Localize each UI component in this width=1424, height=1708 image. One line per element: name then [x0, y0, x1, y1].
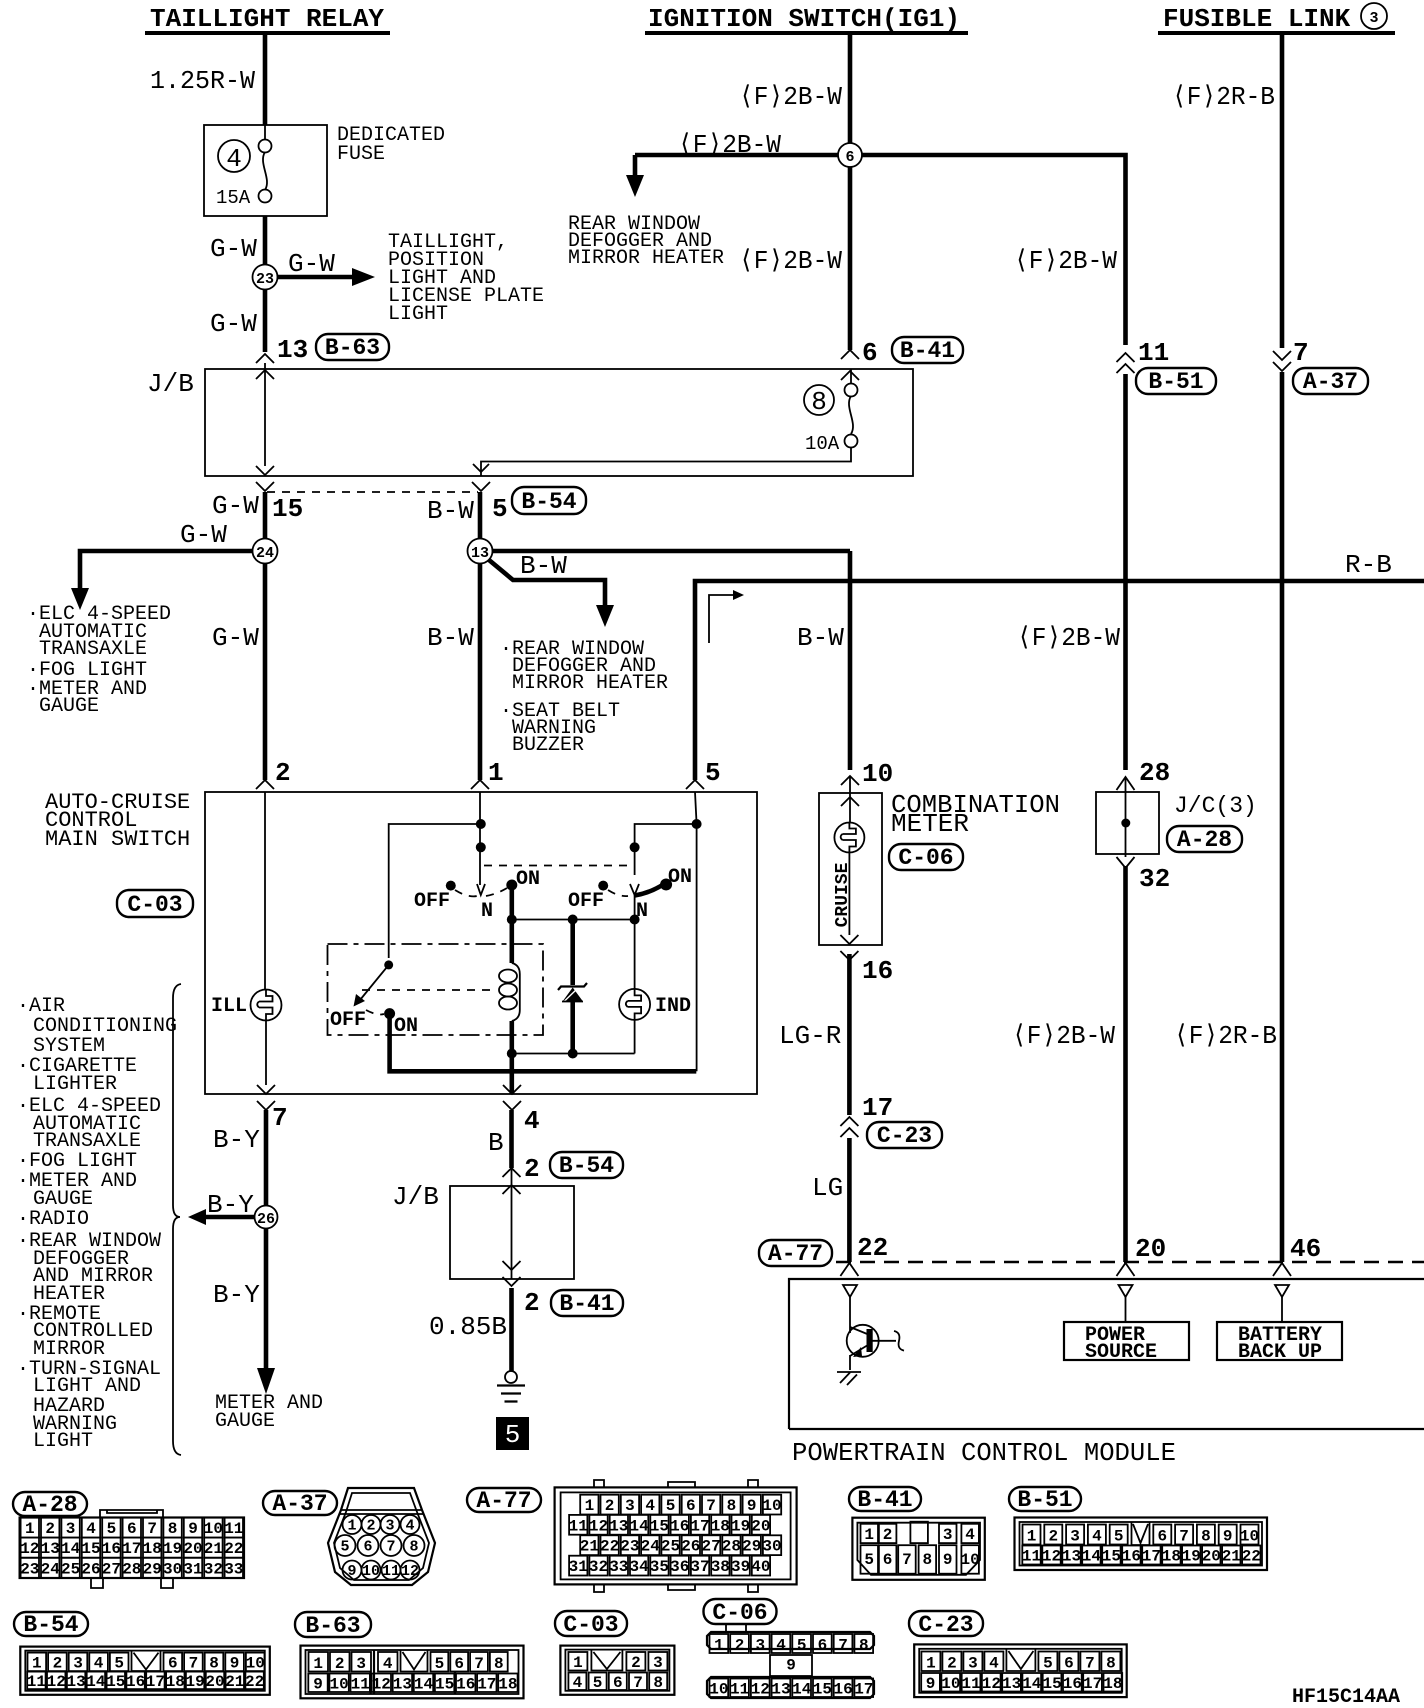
svg-text:12: 12 — [372, 1676, 391, 1694]
svg-text:6: 6 — [1157, 1528, 1167, 1546]
svg-text:A-37: A-37 — [1303, 369, 1358, 395]
svg-text:18: 18 — [1162, 1548, 1181, 1566]
svg-text:8: 8 — [859, 1637, 869, 1655]
svg-text:⟨F⟩2R-B: ⟨F⟩2R-B — [1172, 82, 1275, 112]
svg-text:4: 4 — [776, 1637, 786, 1655]
svg-text:13: 13 — [1062, 1548, 1081, 1566]
svg-text:SOURCE: SOURCE — [1085, 1341, 1157, 1364]
svg-text:B-63: B-63 — [305, 1613, 360, 1639]
lamp ILL — [251, 990, 282, 1021]
svg-text:LIGHT: LIGHT — [33, 1430, 93, 1453]
svg-text:G-W: G-W — [212, 491, 259, 521]
svg-text:13: 13 — [277, 335, 308, 365]
svg-text:14: 14 — [629, 1517, 649, 1535]
svg-text:5: 5 — [114, 1655, 124, 1673]
svg-text:4: 4 — [405, 1518, 414, 1535]
svg-text:6: 6 — [818, 1637, 828, 1655]
svg-text:3: 3 — [943, 1526, 953, 1544]
svg-text:27: 27 — [701, 1538, 720, 1556]
svg-text:2: 2 — [947, 1655, 957, 1673]
right switch branch from pin5 — [692, 819, 702, 829]
svg-text:23: 23 — [256, 271, 274, 288]
svg-text:8: 8 — [811, 387, 827, 417]
svg-text:15: 15 — [106, 1673, 125, 1691]
svg-text:20: 20 — [1135, 1234, 1166, 1264]
svg-text:36: 36 — [670, 1558, 689, 1576]
svg-text:2: 2 — [605, 1497, 615, 1515]
wire 1.25R-W from taillight relay — [150, 34, 544, 379]
svg-text:11: 11 — [569, 1517, 588, 1535]
svg-text:39: 39 — [731, 1558, 750, 1576]
brace — [173, 984, 181, 1455]
svg-text:38: 38 — [711, 1558, 730, 1576]
svg-text:⟨F⟩2B-W: ⟨F⟩2B-W — [1012, 1021, 1115, 1051]
svg-text:7: 7 — [1179, 1528, 1189, 1546]
wire B-W below node 13 to switch pin 1 — [478, 564, 483, 781]
svg-text:R-B: R-B — [1345, 550, 1392, 580]
svg-text:G-W: G-W — [210, 234, 257, 264]
fuse 10A element in J/B — [845, 384, 858, 397]
svg-text:28: 28 — [1139, 758, 1170, 788]
svg-text:6: 6 — [686, 1497, 696, 1515]
node 6 — [838, 143, 862, 167]
svg-text:13: 13 — [41, 1540, 60, 1558]
svg-text:LIGHTER: LIGHTER — [33, 1073, 117, 1096]
svg-text:GAUGE: GAUGE — [215, 1410, 275, 1433]
svg-text:1: 1 — [926, 1655, 936, 1673]
svg-text:7: 7 — [272, 1103, 288, 1133]
svg-text:⟨F⟩2B-W: ⟨F⟩2B-W — [1014, 246, 1117, 276]
relay coil — [509, 920, 514, 964]
wire below node 6 — [848, 167, 853, 350]
svg-text:17: 17 — [690, 1517, 709, 1535]
svg-text:6: 6 — [454, 1655, 464, 1673]
svg-text:6: 6 — [363, 1539, 372, 1556]
svg-text:32: 32 — [589, 1558, 608, 1576]
svg-text:5: 5 — [864, 1551, 874, 1569]
left main switch OFF-N-ON — [477, 884, 485, 895]
svg-text:6: 6 — [127, 1520, 137, 1538]
svg-text:3: 3 — [1070, 1528, 1080, 1546]
wire inside J/B left — [264, 363, 266, 466]
fusible link branch — [1172, 34, 1368, 1262]
svg-text:11: 11 — [224, 1520, 243, 1538]
svg-text:11: 11 — [1022, 1548, 1041, 1566]
svg-text:5: 5 — [666, 1497, 676, 1515]
svg-text:3: 3 — [385, 1518, 394, 1535]
combination meter C-06 — [759, 759, 1060, 1276]
svg-text:22: 22 — [857, 1233, 888, 1263]
svg-text:15: 15 — [813, 1681, 832, 1699]
pin 5 entry — [686, 780, 704, 789]
svg-text:1: 1 — [714, 1637, 724, 1655]
svg-text:⟨F⟩2B-W: ⟨F⟩2B-W — [1017, 623, 1120, 653]
svg-text:B-Y: B-Y — [213, 1125, 260, 1155]
svg-text:C-06: C-06 — [898, 845, 953, 871]
svg-text:16: 16 — [1122, 1548, 1141, 1566]
svg-text:MAIN SWITCH: MAIN SWITCH — [45, 827, 190, 852]
svg-text:7: 7 — [189, 1655, 199, 1673]
svg-text:9: 9 — [188, 1520, 198, 1538]
header IGNITION SWITCH(IG1) — [645, 4, 968, 34]
svg-text:1: 1 — [488, 758, 504, 788]
svg-text:19: 19 — [163, 1540, 182, 1558]
svg-text:15: 15 — [81, 1540, 100, 1558]
pin 2 entry — [256, 780, 274, 789]
svg-text:1: 1 — [32, 1655, 42, 1673]
svg-text:7: 7 — [147, 1520, 157, 1538]
svg-text:1: 1 — [313, 1655, 323, 1673]
svg-text:C-03: C-03 — [127, 892, 182, 918]
junction block J/B lower — [450, 1186, 574, 1279]
relay dash-dot box — [328, 944, 544, 1035]
svg-text:10: 10 — [362, 1563, 380, 1580]
pin triangle 22 — [843, 1285, 857, 1297]
svg-text:4: 4 — [1092, 1528, 1102, 1546]
svg-text:4: 4 — [524, 1106, 540, 1136]
svg-text:8: 8 — [494, 1655, 504, 1673]
svg-text:ILL: ILL — [211, 995, 247, 1018]
svg-text:24: 24 — [256, 545, 274, 562]
svg-text:33: 33 — [609, 1558, 628, 1576]
svg-text:8: 8 — [209, 1655, 219, 1673]
relay switch arm — [384, 960, 393, 969]
svg-text:15: 15 — [1042, 1675, 1061, 1693]
svg-text:34: 34 — [629, 1558, 649, 1576]
svg-text:7: 7 — [386, 1539, 395, 1556]
svg-text:2: 2 — [524, 1154, 540, 1184]
svg-text:18: 18 — [498, 1676, 517, 1694]
svg-text:24: 24 — [41, 1560, 61, 1578]
svg-text:7: 7 — [838, 1637, 848, 1655]
svg-text:26: 26 — [81, 1560, 100, 1578]
continuation arrow indicator — [709, 595, 733, 643]
mech dashed link — [484, 865, 629, 867]
pin 4 exit — [503, 1085, 521, 1110]
svg-text:GAUGE: GAUGE — [39, 695, 99, 718]
svg-text:1: 1 — [347, 1518, 356, 1535]
svg-text:17: 17 — [1142, 1548, 1161, 1566]
svg-text:2: 2 — [45, 1520, 55, 1538]
svg-text:9: 9 — [926, 1675, 936, 1693]
svg-text:11: 11 — [730, 1681, 749, 1699]
pin5 inner wire — [695, 792, 697, 1071]
pin 1 entry — [471, 780, 489, 789]
wire from fuse to B-W output — [481, 447, 851, 476]
svg-text:10A: 10A — [805, 433, 840, 455]
svg-text:G-W: G-W — [180, 520, 227, 550]
svg-text:ON: ON — [516, 868, 540, 891]
svg-text:11: 11 — [27, 1673, 46, 1691]
svg-text:IND: IND — [655, 995, 691, 1018]
svg-text:17: 17 — [477, 1676, 496, 1694]
svg-text:0.85B: 0.85B — [429, 1312, 507, 1342]
svg-text:4: 4 — [573, 1674, 583, 1692]
svg-text:MIRROR HEATER: MIRROR HEATER — [512, 672, 668, 695]
svg-text:19: 19 — [1182, 1548, 1201, 1566]
svg-text:21: 21 — [1222, 1548, 1241, 1566]
pin triangle 46 — [1275, 1285, 1289, 1297]
svg-text:B-W: B-W — [520, 551, 567, 581]
svg-text:MIRROR HEATER: MIRROR HEATER — [568, 247, 724, 270]
arrow into brace — [188, 1209, 206, 1225]
svg-text:10: 10 — [941, 1675, 960, 1693]
svg-text:·RADIO: ·RADIO — [17, 1208, 89, 1231]
svg-text:32: 32 — [1139, 864, 1170, 894]
svg-text:4: 4 — [645, 1497, 655, 1515]
wire G-W below node 24 to switch pin 2 — [263, 564, 268, 781]
svg-text:12: 12 — [47, 1673, 66, 1691]
connector C-23 — [909, 1611, 1127, 1697]
auto-cruise control main switch box C-03 — [45, 758, 757, 1136]
svg-text:A-28: A-28 — [1177, 827, 1232, 853]
svg-text:2: 2 — [1048, 1528, 1058, 1546]
svg-text:8: 8 — [1201, 1528, 1211, 1546]
wire (F)2B-W to PCM — [1123, 866, 1128, 1262]
svg-text:28: 28 — [122, 1560, 141, 1578]
svg-text:TAILLIGHT RELAY: TAILLIGHT RELAY — [150, 4, 384, 34]
svg-text:14: 14 — [792, 1681, 812, 1699]
svg-text:B-54: B-54 — [521, 489, 576, 515]
dedicated fuse box — [204, 125, 327, 216]
svg-text:13: 13 — [771, 1681, 790, 1699]
wire right from node 6 turning down — [862, 155, 1126, 345]
svg-text:⟨F⟩2B-W: ⟨F⟩2B-W — [739, 82, 842, 112]
svg-text:LG-R: LG-R — [779, 1021, 841, 1051]
svg-text:B-41: B-41 — [559, 1291, 614, 1317]
svg-text:6: 6 — [845, 149, 854, 166]
svg-text:A-77: A-77 — [768, 1241, 823, 1267]
svg-text:OFF: OFF — [568, 890, 604, 913]
svg-text:14: 14 — [1082, 1548, 1102, 1566]
svg-text:3: 3 — [1369, 10, 1378, 27]
svg-text:29: 29 — [742, 1538, 761, 1556]
svg-text:37: 37 — [690, 1558, 709, 1576]
svg-text:40: 40 — [751, 1558, 770, 1576]
svg-text:3: 3 — [73, 1655, 83, 1673]
svg-text:9: 9 — [747, 1497, 757, 1515]
svg-text:B-41: B-41 — [857, 1487, 912, 1513]
svg-text:10: 10 — [709, 1681, 728, 1699]
node 26 — [255, 1206, 278, 1229]
svg-text:9: 9 — [347, 1563, 356, 1580]
svg-text:N: N — [481, 900, 493, 923]
wire pin1 down — [479, 792, 481, 885]
svg-text:25: 25 — [661, 1538, 680, 1556]
svg-text:C-03: C-03 — [563, 1612, 618, 1638]
junction dot A — [476, 819, 486, 829]
svg-text:15: 15 — [1102, 1548, 1121, 1566]
svg-text:9: 9 — [230, 1655, 240, 1673]
svg-text:18: 18 — [166, 1673, 185, 1691]
ignition switch branch — [568, 34, 1216, 770]
connector A-77 — [467, 1480, 797, 1592]
svg-text:7: 7 — [706, 1497, 716, 1515]
bottom crossbar — [512, 1053, 635, 1055]
svg-text:16: 16 — [862, 956, 893, 986]
svg-text:10: 10 — [246, 1655, 265, 1673]
connector C-03 — [555, 1611, 674, 1695]
svg-text:25: 25 — [61, 1560, 80, 1578]
svg-text:13: 13 — [393, 1676, 412, 1694]
svg-text:10: 10 — [329, 1676, 348, 1694]
header TAILLIGHT RELAY — [145, 4, 390, 34]
svg-text:21: 21 — [580, 1538, 599, 1556]
svg-text:6: 6 — [862, 338, 878, 368]
svg-text:HF15C14AA: HF15C14AA — [1292, 1686, 1400, 1708]
svg-text:8: 8 — [653, 1674, 663, 1692]
svg-text:15: 15 — [650, 1517, 669, 1535]
node 24 — [27, 520, 278, 780]
svg-text:14: 14 — [1022, 1675, 1042, 1693]
svg-text:J/C(3): J/C(3) — [1174, 793, 1257, 819]
svg-text:C-06: C-06 — [712, 1600, 767, 1626]
svg-text:3: 3 — [625, 1497, 635, 1515]
svg-text:5: 5 — [705, 758, 721, 788]
svg-text:8: 8 — [1106, 1655, 1116, 1673]
svg-text:8: 8 — [922, 1551, 932, 1569]
svg-text:16: 16 — [1063, 1675, 1082, 1693]
svg-text:5: 5 — [340, 1539, 349, 1556]
svg-text:⟨F⟩2B-W: ⟨F⟩2B-W — [739, 246, 842, 276]
svg-text:5: 5 — [107, 1520, 117, 1538]
svg-text:ON: ON — [394, 1015, 418, 1038]
wire B-W ignition drop to meter — [797, 551, 1120, 770]
svg-text:22: 22 — [1242, 1548, 1261, 1566]
wire B-Y pin7 chain — [207, 1110, 323, 1433]
svg-text:8: 8 — [168, 1520, 178, 1538]
pin triangle 20 — [1119, 1285, 1133, 1297]
pin 17 C-23 — [840, 1117, 858, 1137]
wire N contact to IND lamp — [634, 895, 636, 989]
svg-text:16: 16 — [126, 1673, 145, 1691]
crossbar to diode and IND — [512, 919, 635, 921]
wire (F)2R-B lower label — [1174, 1021, 1321, 1276]
wire from ON contact down — [509, 885, 514, 920]
svg-text:9: 9 — [313, 1676, 323, 1694]
svg-text:8: 8 — [727, 1497, 737, 1515]
junction dot B — [476, 842, 486, 852]
svg-text:7: 7 — [1085, 1655, 1095, 1673]
svg-text:1: 1 — [585, 1497, 595, 1515]
svg-text:13: 13 — [66, 1673, 85, 1691]
svg-text:7: 7 — [633, 1674, 643, 1692]
svg-text:17: 17 — [122, 1540, 141, 1558]
svg-text:20: 20 — [205, 1673, 224, 1691]
svg-text:22: 22 — [224, 1540, 243, 1558]
svg-text:7: 7 — [474, 1655, 484, 1673]
wire B pin4 chain — [392, 1110, 623, 1450]
svg-text:3: 3 — [356, 1655, 366, 1673]
fuse 15A element — [259, 140, 272, 153]
svg-text:C-23: C-23 — [918, 1612, 973, 1638]
svg-text:BUZZER: BUZZER — [512, 734, 584, 757]
svg-text:B-W: B-W — [797, 623, 844, 653]
junction block J/B upper — [147, 363, 913, 539]
connector A-37 — [263, 1488, 435, 1585]
wire G-W below node 23 — [263, 290, 268, 352]
svg-text:2: 2 — [524, 1288, 540, 1318]
svg-text:24: 24 — [641, 1538, 661, 1556]
svg-text:12: 12 — [751, 1681, 770, 1699]
svg-text:G-W: G-W — [212, 623, 259, 653]
battery back up box — [1217, 1322, 1342, 1360]
svg-text:22: 22 — [600, 1538, 619, 1556]
svg-text:35: 35 — [650, 1558, 669, 1576]
svg-text:2: 2 — [275, 758, 291, 788]
svg-text:1: 1 — [1027, 1528, 1037, 1546]
svg-text:17: 17 — [1083, 1675, 1102, 1693]
svg-text:10: 10 — [204, 1520, 223, 1538]
svg-text:1: 1 — [573, 1654, 583, 1672]
svg-text:23: 23 — [620, 1538, 639, 1556]
svg-text:ON: ON — [668, 866, 692, 889]
svg-text:13: 13 — [1002, 1675, 1021, 1693]
svg-text:5: 5 — [1114, 1528, 1124, 1546]
svg-text:11: 11 — [961, 1675, 980, 1693]
svg-text:B: B — [488, 1128, 504, 1158]
svg-text:A-28: A-28 — [22, 1492, 77, 1518]
svg-text:5: 5 — [797, 1637, 807, 1655]
svg-text:6: 6 — [613, 1674, 623, 1692]
svg-text:6: 6 — [168, 1655, 178, 1673]
svg-text:15A: 15A — [216, 187, 251, 209]
svg-text:9: 9 — [786, 1657, 796, 1675]
svg-text:11: 11 — [351, 1676, 370, 1694]
svg-text:BACK UP: BACK UP — [1238, 1341, 1322, 1364]
svg-text:LG: LG — [812, 1173, 843, 1203]
svg-text:B-Y: B-Y — [207, 1190, 254, 1220]
svg-text:FUSIBLE LINK: FUSIBLE LINK — [1163, 4, 1351, 34]
svg-text:3: 3 — [755, 1637, 765, 1655]
svg-text:19: 19 — [185, 1673, 204, 1691]
svg-text:METER: METER — [891, 809, 969, 839]
power source box — [1064, 1322, 1189, 1360]
svg-text:31: 31 — [569, 1558, 588, 1576]
svg-text:IGNITION SWITCH(IG1): IGNITION SWITCH(IG1) — [648, 4, 960, 34]
svg-text:1: 1 — [864, 1526, 874, 1544]
fuse circle 8 — [804, 385, 834, 415]
svg-text:13: 13 — [471, 545, 489, 562]
svg-text:FUSE: FUSE — [337, 143, 385, 166]
wire to relay pivot — [389, 824, 481, 958]
pin 11 B-51 — [1117, 353, 1135, 373]
dashed connector line B-54 — [267, 491, 478, 493]
svg-text:OFF: OFF — [330, 1009, 366, 1032]
svg-text:20: 20 — [183, 1540, 202, 1558]
svg-text:1.25R-W: 1.25R-W — [150, 66, 255, 96]
svg-text:12: 12 — [982, 1675, 1001, 1693]
svg-text:20: 20 — [751, 1517, 770, 1535]
svg-text:26: 26 — [681, 1538, 700, 1556]
right main switch OFF-N-ON — [630, 884, 639, 895]
svg-text:J/B: J/B — [392, 1182, 439, 1212]
junction connector J/C(3) A-28 — [1012, 758, 1257, 1276]
svg-text:16: 16 — [456, 1676, 475, 1694]
lamp CRUISE — [834, 823, 864, 853]
transistor — [849, 1297, 851, 1333]
svg-text:12: 12 — [20, 1540, 39, 1558]
svg-text:8: 8 — [409, 1539, 418, 1556]
svg-text:10: 10 — [1240, 1528, 1259, 1546]
svg-text:B-W: B-W — [427, 496, 474, 526]
relay contact output wire — [390, 1014, 697, 1072]
svg-text:J/B: J/B — [147, 369, 194, 399]
svg-text:4: 4 — [383, 1655, 393, 1673]
svg-text:4: 4 — [86, 1520, 96, 1538]
svg-text:19: 19 — [731, 1517, 750, 1535]
svg-text:30: 30 — [762, 1538, 781, 1556]
